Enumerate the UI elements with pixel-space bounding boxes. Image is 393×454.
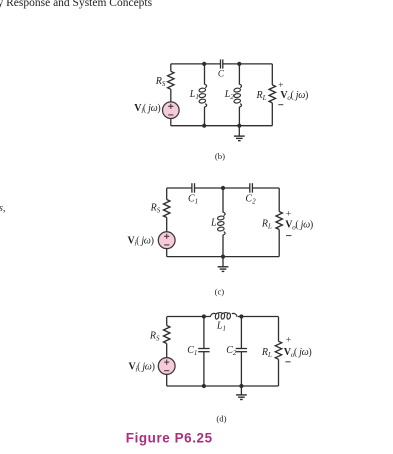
node: (c) L top junction [221,186,225,190]
wire: (d) right branch top lead [278,317,280,342]
resistor RS (d) [164,326,170,344]
capacitor C2 (c) [250,183,253,193]
svg-text:RL: RL [256,90,267,102]
svg-text:Vo( jω): Vo( jω) [284,347,312,359]
wire: (c) right branch top lead [278,188,280,212]
wire: (b) L1 branch top lead [204,64,206,85]
svg-text:RS: RS [155,76,166,88]
inductor L1 (d) horizontal [210,313,237,320]
resistor RL (c) [276,212,282,230]
wire: (b) ground stem [238,126,240,136]
wire: (b) L1 branch bottom lead [204,107,206,126]
wire: (c) bottom wire [167,256,280,258]
svg-text:L: L [210,218,217,229]
svg-text:C: C [218,68,225,78]
svg-text:Vi( jω): Vi( jω) [134,103,160,115]
svg-text:y Response and System Concepts: y Response and System Concepts [0,0,153,9]
svg-text:(d): (d) [216,414,226,424]
wire: (d) right branch bottom lead [278,359,280,386]
source VI (c) [158,232,175,249]
wire: (b) L2 branch top lead [238,64,240,85]
wire: (c) top wire middle segment [195,187,250,189]
wire: (b) L2 branch bottom lead [238,107,240,126]
source VI (d) [158,358,175,375]
wire: (d) bottom wire [167,385,279,387]
svg-text:Vo( jω): Vo( jω) [280,90,308,102]
inductor L2 (b) [234,84,242,107]
wire: (b) right branch bottom lead [271,103,273,126]
node: (b) L2 top junction [237,62,241,66]
node: (d) C1 top junction [202,314,206,318]
svg-text:Vi( jω): Vi( jω) [129,361,155,373]
wire: (b) right branch top lead [271,64,273,85]
wire: (c) top wire right segment [252,187,279,189]
wire: (b) left branch top lead [170,64,172,71]
inductor L (c) [217,212,225,235]
capacitor C [221,59,223,68]
wire: (d) C1 branch bottom lead [203,352,205,386]
svg-text:C2: C2 [245,193,256,205]
wire: (d) C1 branch top lead [203,317,205,349]
node: (c) L bottom junction [221,255,225,259]
wire: (b) left branch middle lead [170,89,172,102]
svg-text:RS: RS [149,331,160,343]
wire: (d) top wire right segment [238,316,279,318]
node: (b) L2 bottom junction [237,124,241,128]
label minus (c) [286,235,291,237]
svg-text:C1: C1 [187,345,197,357]
svg-text:(b): (b) [215,151,225,161]
capacitor C1 (d) [198,349,209,352]
ground (d) [236,395,247,400]
node: (b) L1 top junction [202,62,206,66]
wire: (b) top wire right segment [223,63,272,65]
wire: (b) left branch bottom lead [170,119,172,126]
svg-text:Vo( jω): Vo( jω) [285,220,313,232]
svg-text:(c): (c) [215,287,225,297]
wire: (c) ground stem [222,257,224,267]
resistor RS (c) [164,200,170,218]
wire: (d) left branch top lead [166,317,168,326]
source VI (b) [163,102,180,119]
wire: (c) middle branch top lead [222,188,224,212]
wire: (c) top wire left segment [167,187,192,189]
svg-text:RL: RL [261,218,272,230]
resistor RL (d) [275,341,281,359]
wire: (d) C2 branch bottom lead [240,352,242,386]
wire: (c) right branch bottom lead [278,230,280,257]
wire: (d) C2 branch top lead [240,317,242,349]
wire: (d) ground stem [240,386,242,395]
wire: (d) top wire left segment [167,316,211,318]
wire: (c) middle branch bottom lead [222,235,224,257]
svg-text:RL: RL [261,347,272,359]
svg-text:s,: s, [0,203,6,214]
node: (d) C1 bottom junction [202,384,206,388]
svg-text:+: + [286,336,291,346]
svg-text:+: + [286,210,291,220]
svg-text:Vi( jω): Vi( jω) [128,236,154,248]
node: (d) C2 top junction [239,314,243,318]
label minus (d) [285,361,290,363]
wire: (d) left branch middle lead [166,344,168,358]
ground (c) [218,267,229,272]
node: (b) L1 bottom junction [202,124,206,128]
wire: (c) left branch middle lead [166,218,168,232]
svg-text:L1: L1 [189,89,199,101]
ground (b) [234,136,245,141]
wire: (c) left branch bottom lead [166,249,168,257]
resistor RS (b) [168,71,174,89]
label minus (b) [278,104,283,106]
svg-text:L2: L2 [224,89,235,101]
svg-text:C1: C1 [188,193,198,205]
svg-text:C2: C2 [226,345,237,357]
capacitor C1 (c) [192,183,195,193]
node: (d) C2 bottom junction [239,384,243,388]
wire: (b) top wire left segment [171,63,221,65]
svg-text:L1: L1 [216,320,226,332]
wire: (b) bottom wire [171,125,272,127]
inductor L1 (b) [199,84,207,107]
svg-text:RS: RS [150,202,161,214]
wire: (d) left branch bottom lead [166,374,168,386]
capacitor C2 (d) [236,349,247,352]
resistor RL (b) [269,85,275,103]
svg-text:Figure P6.25: Figure P6.25 [126,431,213,446]
wire: (c) left branch top lead [166,188,168,200]
